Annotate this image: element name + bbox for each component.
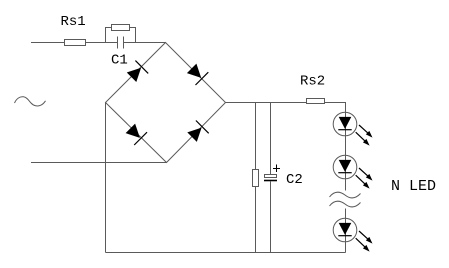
wire (between Rs1 and C1) (86, 42, 118, 44)
capacitor C1 (118, 37, 124, 49)
AC source symbol (15, 97, 46, 106)
svg-text:N LED: N LED (391, 178, 436, 195)
LED1 (333, 112, 372, 145)
break squiggle upper (330, 192, 361, 198)
resistor (bleeder, vertical) (253, 170, 259, 187)
bridge rectifier outline (106, 43, 226, 163)
wire (DC plus rail, right vertex to Rs2) (226, 102, 307, 104)
svg-text:Rs2: Rs2 (300, 74, 325, 90)
wire (between break and LED3) (345, 209, 347, 253)
wire (bottom rail) (106, 252, 346, 254)
wire (C2 branch upper) (270, 103, 272, 175)
diode D2 (top-right) (187, 64, 208, 85)
resistor Rs1 (65, 40, 86, 46)
wire (bleeder resistor branch) (255, 103, 257, 253)
break squiggle lower (330, 201, 361, 207)
resistor Rs2 (307, 99, 325, 104)
LED3 (333, 218, 372, 251)
capacitor C2 (electrolytic) (264, 175, 277, 181)
LED2 (333, 155, 372, 188)
wire (bypass bracket around C1) (106, 28, 136, 43)
diode D4 (bottom-right) (187, 121, 208, 142)
svg-text:Rs1: Rs1 (61, 14, 86, 30)
resistor (parallel with C1) (112, 25, 130, 31)
wire (C2 branch lower) (270, 182, 272, 253)
plus sign of C2 (273, 165, 280, 173)
diode D3 (bottom-left) (126, 124, 147, 145)
svg-text:C1: C1 (111, 53, 128, 69)
wire (DC minus, left vertex down) (105, 103, 107, 253)
wire (lower AC input) (31, 162, 167, 164)
svg-text:C2: C2 (286, 172, 303, 188)
wire (top AC input, left segment) (31, 42, 65, 44)
wire (Rs2 to LED string corner and down) (325, 103, 346, 191)
diode D1 (top-left) (127, 61, 148, 82)
wire (C1 to bridge top vertex) (124, 42, 166, 44)
